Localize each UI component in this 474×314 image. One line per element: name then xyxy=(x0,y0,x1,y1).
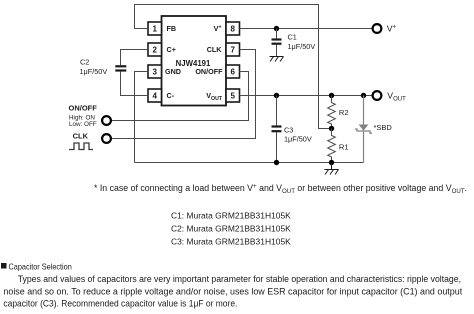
terminal CLK input xyxy=(102,134,111,143)
node SBD tap on VOUT line xyxy=(361,93,366,98)
svg-text:Low: OFF: Low: OFF xyxy=(69,121,97,128)
clock waveform symbol xyxy=(69,143,93,150)
wire pin8 to V+ terminal xyxy=(240,28,373,30)
svg-text:5: 5 xyxy=(230,91,235,100)
svg-text:3: 3 xyxy=(152,67,157,76)
pin 1 box xyxy=(148,22,162,35)
svg-text:C3: Murata GRM21BB31H105K: C3: Murata GRM21BB31H105K xyxy=(171,236,291,246)
svg-text:capacitor (C3). Recommended ca: capacitor (C3). Recommended capacitor va… xyxy=(3,299,237,309)
wire C1 lower lead xyxy=(276,45,278,57)
wire C3 lower lead xyxy=(276,132,278,163)
pin 8 box xyxy=(226,22,240,35)
terminal V+ xyxy=(373,24,382,33)
resistor R2 xyxy=(328,96,336,129)
diode SBD (Schottky) xyxy=(355,125,372,134)
svg-text:C-: C- xyxy=(167,91,175,100)
svg-text:8: 8 xyxy=(230,24,235,33)
IC U1 NJW4191 body xyxy=(162,16,227,106)
svg-text:1: 1 xyxy=(152,24,157,33)
svg-text:Types and values of capacitors: Types and values of capacitors are very … xyxy=(18,274,461,284)
svg-text:R1: R1 xyxy=(339,142,349,151)
wire pin6 to ON/OFF input xyxy=(111,72,249,121)
wire C2 bottom to pin4 xyxy=(121,72,149,96)
wire C1 upper lead xyxy=(276,29,278,39)
svg-text:1μF/50V: 1μF/50V xyxy=(284,134,312,143)
node C3 tap on VOUT line xyxy=(274,93,279,98)
svg-text:2: 2 xyxy=(152,45,157,54)
svg-text:noise and so on. To reduce a r: noise and so on. To reduce a ripple volt… xyxy=(3,286,462,296)
capacitor C2 xyxy=(115,66,126,70)
svg-text:C3: C3 xyxy=(284,126,293,135)
section heading Capacitor Selection xyxy=(1,263,7,269)
node R2/R1 junction (FB tap) xyxy=(329,126,334,131)
svg-text:4: 4 xyxy=(152,91,157,100)
svg-text:R2: R2 xyxy=(339,108,349,117)
resistor R1 xyxy=(328,129,336,163)
svg-text:7: 7 xyxy=(230,45,235,54)
pin 3 box xyxy=(148,65,162,78)
svg-text:*SBD: *SBD xyxy=(374,123,393,132)
wire pin3 GND down to bottom rail xyxy=(135,72,149,163)
svg-text:ON/OFF: ON/OFF xyxy=(69,104,98,113)
ground below R1 xyxy=(325,163,339,175)
svg-text:GND: GND xyxy=(165,67,181,76)
node R2 top on VOUT line xyxy=(329,93,334,98)
capacitor C1 xyxy=(272,40,282,44)
svg-text:C+: C+ xyxy=(167,45,176,54)
wire pin5 VOUT to terminal xyxy=(240,95,373,97)
svg-text:CLK: CLK xyxy=(207,45,223,54)
terminal ON/OFF input xyxy=(102,116,111,125)
node C3 bottom on rail xyxy=(274,160,279,165)
capacitor C3 xyxy=(272,127,282,132)
ground below C1 xyxy=(270,57,284,62)
svg-text:C2: Murata GRM21BB31H105K: C2: Murata GRM21BB31H105K xyxy=(171,223,291,233)
svg-text:C1: Murata GRM21BB31H105K: C1: Murata GRM21BB31H105K xyxy=(171,211,291,221)
wire pin2 to C2 top xyxy=(121,50,149,66)
svg-text:C2: C2 xyxy=(80,58,89,67)
svg-text:CLK: CLK xyxy=(73,131,89,140)
svg-text:1μF/50V: 1μF/50V xyxy=(80,67,108,76)
svg-text:ON/OFF: ON/OFF xyxy=(195,67,223,76)
svg-text:Capacitor Selection: Capacitor Selection xyxy=(9,262,73,272)
pin 2 box xyxy=(148,43,162,56)
wire C3 upper lead xyxy=(276,96,278,126)
wire SBD lower lead (grey) xyxy=(363,131,365,163)
wire pin7 to CLK input xyxy=(111,50,256,139)
svg-text:6: 6 xyxy=(230,67,235,76)
svg-text:1μF/50V: 1μF/50V xyxy=(288,42,316,51)
node R1 bottom on rail xyxy=(329,160,334,165)
svg-text:C1: C1 xyxy=(288,33,297,42)
wire SBD upper lead (grey) xyxy=(363,96,365,125)
terminal VOUT xyxy=(373,91,382,100)
pin 5 box xyxy=(226,89,240,102)
node C1 tap on V+ line xyxy=(274,26,279,31)
wire bottom ground rail xyxy=(135,162,364,164)
wire FB loop: pin1 left, up, across top, down, to R1/R2 junction xyxy=(135,5,332,129)
pin 4 box xyxy=(148,89,162,102)
pin 7 box xyxy=(226,43,240,56)
pin 6 box xyxy=(226,65,240,78)
svg-text:FB: FB xyxy=(167,24,177,33)
